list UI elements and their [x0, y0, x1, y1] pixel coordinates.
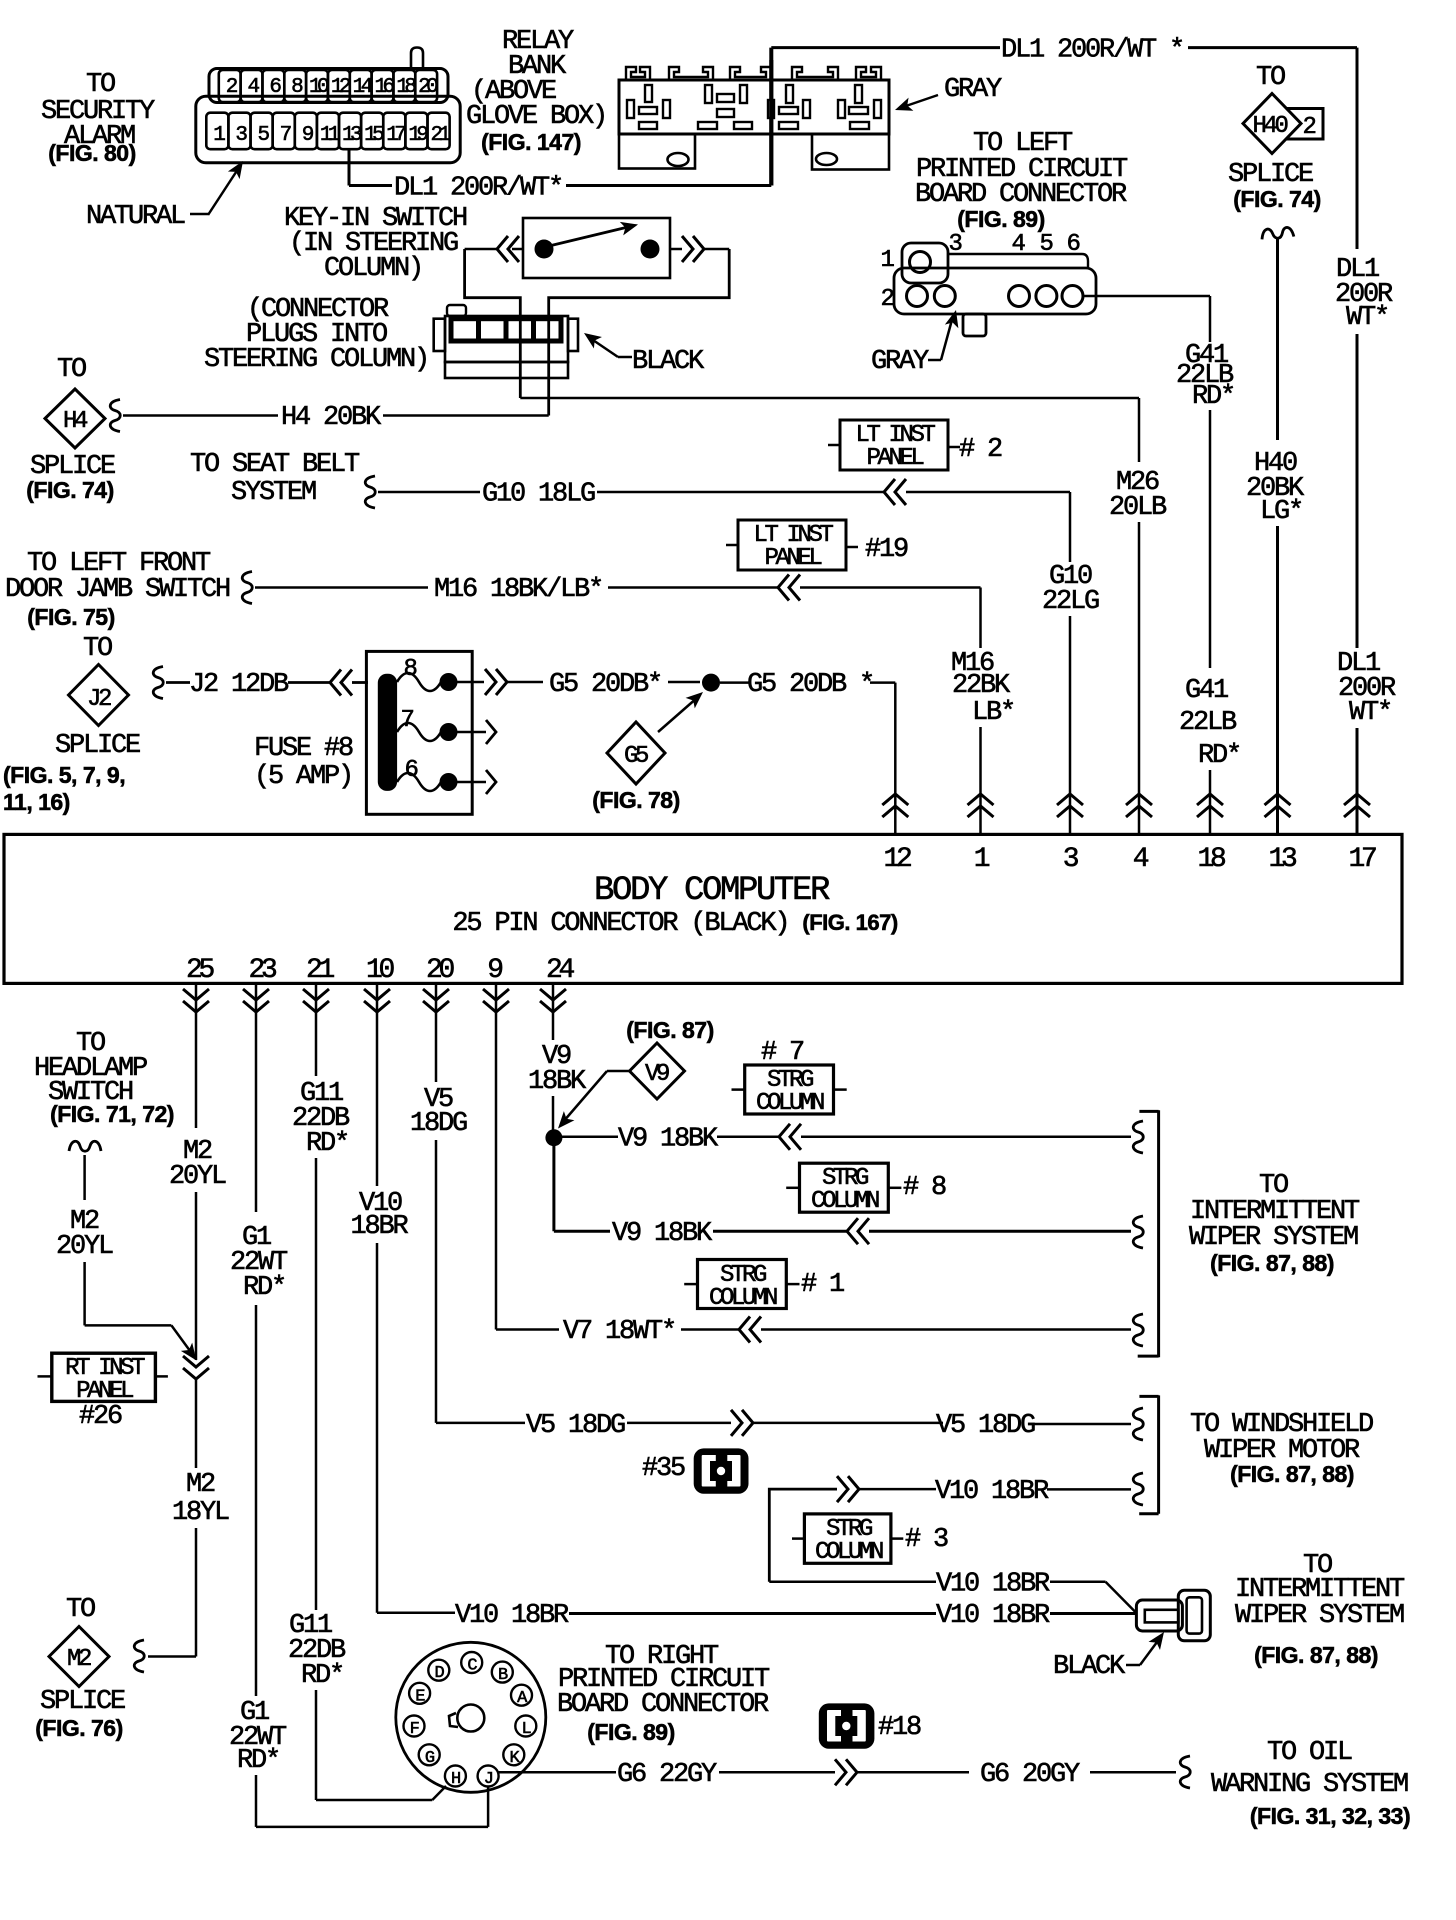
svg-text:25 PIN CONNECTOR (BLACK) (FIG.: 25 PIN CONNECTOR (BLACK) (FIG. 167) [452, 909, 897, 939]
svg-text:V7 18WT*: V7 18WT* [563, 1317, 675, 1347]
connector chevrons below body computer x=377 [364, 989, 390, 1012]
svg-text:BODY COMPUTER: BODY COMPUTER [594, 872, 830, 910]
pin label 3 (top row) [1063, 844, 1079, 875]
svg-text:PANEL: PANEL [76, 1378, 133, 1405]
pin label 21 (bottom row) [306, 955, 335, 986]
label: TO HEADLAMP SWITCH (FIG. 71, 72) [34, 1029, 174, 1127]
svg-text:TO OIL: TO OIL [1267, 1738, 1352, 1768]
svg-text:TO: TO [86, 70, 115, 100]
svg-text:GRAY: GRAY [944, 75, 1002, 105]
svg-text:M2: M2 [186, 1470, 215, 1500]
svg-text:WIPER SYSTEM: WIPER SYSTEM [1189, 1223, 1358, 1253]
svg-text:(FIG. 89): (FIG. 89) [957, 206, 1045, 232]
svg-text:20YL: 20YL [56, 1232, 113, 1262]
svg-text:TO: TO [83, 634, 112, 664]
connector chevrons at body computer top x=980.5 [968, 794, 994, 817]
connector chevrons on M2 wire [183, 1356, 209, 1379]
svg-text:GRAY: GRAY [871, 347, 929, 377]
label: NATURAL with arrow to connector [86, 157, 249, 232]
svg-text:RD*: RD* [1198, 741, 1240, 771]
component: key-in switch [523, 218, 670, 278]
svg-text:(FIG. 87, 88): (FIG. 87, 88) [1254, 1642, 1378, 1668]
wire: pin6 to G41 22LB RD* to pin 18 [1083, 296, 1240, 834]
component: BODY COMPUTER 25 PIN CONNECTOR (BLACK) (FIG. 167) [4, 834, 1402, 983]
bracket: intermittent wiper system group [1138, 1110, 1159, 1357]
wire: G11 22DB RD* from pin 21 to round connector pin H [288, 983, 446, 1800]
label: BLACK (key-in connector) with arrow [580, 327, 705, 377]
svg-text:LG*: LG* [1260, 497, 1302, 527]
splice H40>2 (FIG. 74) [1228, 63, 1323, 212]
svg-text:V10 18BR: V10 18BR [455, 1601, 569, 1631]
splice M2 (FIG. 76) [35, 1595, 144, 1741]
pin label 23 (bottom row) [248, 955, 277, 986]
svg-text:SPLICE: SPLICE [55, 731, 140, 761]
connector chevrons below body computer x=256 [243, 989, 269, 1012]
svg-text:23: 23 [248, 955, 277, 986]
svg-text:D: D [434, 1664, 444, 1683]
svg-text:RD*: RD* [301, 1661, 343, 1691]
svg-text:(FIG. 74): (FIG. 74) [1233, 186, 1321, 212]
splice H4 (FIG. 74) [26, 355, 115, 503]
svg-text:G5: G5 [624, 743, 648, 770]
wire: DL1 200R/WT* from security connector pin 13 [349, 48, 1000, 204]
svg-text:V10 18BR: V10 18BR [936, 1570, 1050, 1600]
svg-text:SYSTEM: SYSTEM [231, 478, 316, 508]
connector chevrons at body computer top x=1357 [1344, 794, 1370, 817]
svg-text:13: 13 [1268, 844, 1297, 875]
svg-text:18BK: 18BK [528, 1067, 587, 1097]
wire: key-in switch right lead to connector [549, 236, 730, 416]
connector: security alarm 21-pin (natural) [196, 48, 460, 163]
wire: V9 18BK lower branch to intermittent wiper [554, 1216, 1143, 1249]
svg-text:COLUMN: COLUMN [815, 1539, 883, 1566]
svg-text:(FIG. 74): (FIG. 74) [26, 477, 114, 503]
svg-text:(FIG. 87): (FIG. 87) [626, 1017, 714, 1043]
svg-text:(FIG. 71, 72): (FIG. 71, 72) [50, 1101, 174, 1127]
svg-text:12: 12 [883, 844, 911, 875]
svg-text:(FIG. 87, 88): (FIG. 87, 88) [1230, 1461, 1354, 1487]
wire: G6 22GY from pin J to oil warning [499, 1756, 1191, 1790]
pin label 10 (bottom row) [366, 955, 395, 986]
svg-text:G41: G41 [1185, 676, 1228, 706]
svg-text:(FIG. 78): (FIG. 78) [592, 787, 680, 813]
wire: J2 12DB to fuse #8 [153, 667, 368, 701]
component: STRG COLUMN # 1 [684, 1260, 844, 1313]
component: fuse #8 (5 AMP) block [366, 651, 472, 814]
wire: H4 20BK [110, 400, 548, 434]
svg-text:G6 20GY: G6 20GY [980, 1760, 1080, 1790]
wire: V7 18WT* from pin 9 to intermittent wiper [496, 983, 1143, 1347]
connector chevrons below body computer x=196 [183, 989, 209, 1012]
svg-text:20: 20 [426, 955, 455, 986]
svg-text:WT*: WT* [1349, 698, 1391, 728]
splice G5 (FIG. 78) with arrow to junction [592, 687, 707, 813]
wire: M2 20YL headlamp branch [56, 1141, 202, 1364]
connector chevrons at body computer top x=1139 [1126, 794, 1152, 817]
svg-text:TO SEAT BELT: TO SEAT BELT [190, 450, 360, 480]
pin label 1 (top row) [974, 844, 990, 875]
svg-text:WARNING SYSTEM: WARNING SYSTEM [1211, 1770, 1408, 1800]
svg-text:BOARD CONNECTOR: BOARD CONNECTOR [557, 1690, 769, 1720]
svg-text:DL1 200R/WT*: DL1 200R/WT* [394, 174, 562, 204]
svg-text:BLACK: BLACK [1053, 1652, 1126, 1682]
pin label 9 (bottom row) [487, 955, 502, 986]
node: G5 junction dot [702, 674, 720, 692]
svg-text:H4: H4 [63, 408, 88, 435]
connector: key-in switch 4-cavity (black) [434, 305, 578, 378]
pin label 20 (bottom row) [426, 955, 455, 986]
svg-text:#18: #18 [878, 1713, 921, 1743]
svg-text:BLACK: BLACK [632, 347, 705, 377]
pin label 17 (top row) [1348, 844, 1376, 875]
svg-text:10: 10 [366, 955, 395, 986]
svg-text:DL1 200R/WT *: DL1 200R/WT * [1001, 36, 1183, 66]
svg-text:COLUMN: COLUMN [811, 1188, 879, 1215]
svg-text:# 8: # 8 [903, 1173, 946, 1203]
label+wire: DL1 200R/WT * (top right run) [1001, 36, 1357, 250]
wire: fuse out 6 [457, 770, 496, 794]
svg-text:RD*: RD* [243, 1273, 285, 1303]
wire: G5 20DB* from fuse to junction [457, 669, 700, 700]
svg-text:WIPER SYSTEM: WIPER SYSTEM [1235, 1601, 1404, 1631]
svg-text:COLUMN: COLUMN [756, 1090, 824, 1117]
svg-text:(5 AMP): (5 AMP) [254, 762, 352, 792]
icon: grounding #18 [819, 1703, 921, 1748]
svg-text:DOOR JAMB SWITCH: DOOR JAMB SWITCH [5, 575, 230, 605]
svg-text:G5 20DB*: G5 20DB* [549, 670, 661, 700]
svg-text:H40: H40 [1252, 113, 1287, 140]
label: GRAY (relay bank) with arrow [893, 75, 1002, 117]
svg-text:M2: M2 [67, 1646, 91, 1673]
svg-text:L: L [521, 1720, 531, 1739]
svg-text:18: 18 [1197, 844, 1225, 875]
component: RT INST PANEL #26 [38, 1353, 168, 1432]
svg-text:STEERING COLUMN): STEERING COLUMN) [204, 345, 428, 375]
svg-text:22LG: 22LG [1042, 587, 1099, 617]
svg-text:(FIG. 31, 32, 33): (FIG. 31, 32, 33) [1250, 1803, 1410, 1829]
wire: V10 18BR upper branch to wiper motor bracket [769, 1473, 1143, 1582]
svg-text:(FIG. 87, 88): (FIG. 87, 88) [1210, 1250, 1334, 1276]
component: STRG COLUMN # 8 [786, 1163, 946, 1215]
svg-text:#35: #35 [642, 1454, 685, 1484]
wire: V5 18DG from pin 20 [410, 983, 1143, 1441]
label: TO LEFT PRINTED CIRCUIT BOARD CONNECTOR (FIG. 89) [915, 129, 1128, 232]
svg-text:17: 17 [1348, 844, 1376, 875]
svg-text:C: C [467, 1657, 477, 1676]
svg-text:22BK: 22BK [952, 671, 1011, 701]
svg-text:RD*: RD* [1192, 382, 1234, 412]
svg-text:# 2: # 2 [959, 435, 1002, 465]
svg-text:V5 18DG: V5 18DG [936, 1411, 1035, 1441]
wire: G5 20DB* junction to pin 12 [720, 670, 895, 834]
connector chevrons at body computer top x=1277.5 [1265, 794, 1291, 817]
svg-text:G5 20DB *: G5 20DB * [747, 670, 873, 700]
wire: G10 18LG to pin 3 [365, 476, 1099, 834]
svg-text:GLOVE BOX): GLOVE BOX) [466, 102, 606, 132]
svg-text:PANEL: PANEL [764, 545, 821, 572]
svg-text:COLUMN: COLUMN [709, 1285, 777, 1312]
label: FUSE #8 (5 AMP) [254, 734, 353, 792]
wire: V10 18BR lower branch to black connector [769, 1570, 1136, 1613]
connector chevrons below body computer x=496 [483, 989, 509, 1012]
svg-text:WT*: WT* [1346, 303, 1388, 333]
component: STRG COLUMN # 7 [732, 1038, 847, 1117]
svg-text:20LB: 20LB [1109, 493, 1167, 523]
connector chevrons below body computer x=553 [540, 989, 566, 1012]
pin label 18 (top row) [1197, 844, 1225, 875]
pin label 4 (top row) [1133, 844, 1149, 875]
pin label 24 (bottom row) [546, 955, 575, 986]
svg-text:V9 18BK: V9 18BK [618, 1125, 719, 1155]
pin label 13 (top row) [1268, 844, 1297, 875]
wire: G1 22WT RD* from pin 23 to round connector pin J [229, 983, 488, 1827]
wire: DL1 vertical through relay bank [769, 60, 773, 186]
svg-text:# 3: # 3 [905, 1525, 948, 1555]
svg-text:18DG: 18DG [410, 1109, 467, 1139]
svg-text:(FIG. 75): (FIG. 75) [27, 604, 115, 630]
label: TO RIGHT PRINTED CIRCUIT BOARD CONNECTOR (FIG. 89) [557, 1642, 770, 1745]
label: TO OIL WARNING SYSTEM (FIG. 31, 32, 33) [1211, 1738, 1410, 1829]
svg-text:F: F [410, 1720, 419, 1739]
label: TO LEFT FRONT DOOR JAMB SWITCH (FIG. 75) [5, 549, 230, 630]
pin label 25 (bottom row) [186, 955, 215, 986]
label: TO WINDSHIELD WIPER MOTOR (FIG. 87, 88) [1190, 1410, 1373, 1487]
connector: left PCB connector (gray, 6 pin) [880, 231, 1096, 336]
label: TO SEAT BELT SYSTEM [190, 450, 360, 508]
svg-text:11, 16): 11, 16) [3, 789, 70, 815]
svg-text:V5 18DG: V5 18DG [526, 1411, 625, 1441]
svg-text:(FIG. 76): (FIG. 76) [35, 1715, 123, 1741]
svg-text:TO: TO [57, 355, 86, 385]
svg-text:20YL: 20YL [169, 1162, 226, 1192]
svg-text:J2 12DB: J2 12DB [189, 670, 289, 700]
label: KEY-IN SWITCH (IN STEERING COLUMN) [284, 204, 467, 284]
svg-text:G6 22GY: G6 22GY [617, 1760, 717, 1790]
svg-text:(FIG. 5, 7, 9,: (FIG. 5, 7, 9, [3, 762, 125, 788]
svg-text:22LB: 22LB [1179, 708, 1237, 738]
component: LT INST PANEL #19 [726, 520, 908, 572]
connector: intermittent wiper (black) [1136, 1590, 1210, 1641]
label: TO SECURITY ALARM (FIG. 80) [41, 70, 155, 166]
label: (CONNECTOR PLUGS INTO STEERING COLUMN) [204, 295, 428, 375]
label: BLACK (wiper connector) with arrow [1053, 1628, 1170, 1682]
svg-text:(FIG. 89): (FIG. 89) [587, 1719, 675, 1745]
connector chevrons below body computer x=316 [303, 989, 329, 1012]
icon: grounding #35 [642, 1448, 749, 1493]
svg-text:RD*: RD* [237, 1746, 279, 1776]
label: TO INTERMITTENT WIPER SYSTEM (FIG. 87, 88) lower [1235, 1551, 1405, 1668]
connector chevrons at body computer top x=1070 [1057, 794, 1083, 817]
bracket: windshield wiper motor group [1139, 1395, 1158, 1513]
svg-text:TO: TO [1256, 63, 1285, 93]
svg-text:RD*: RD* [306, 1129, 348, 1159]
connector chevrons below body computer x=436 [423, 989, 449, 1012]
wire: M2 18YL to splice [148, 1380, 229, 1657]
svg-text:M16 18BK/LB*: M16 18BK/LB* [434, 575, 602, 605]
wire: V9 vertical junction to lower branch [552, 1138, 555, 1232]
svg-text:SPLICE: SPLICE [40, 1687, 125, 1717]
svg-text:(FIG. 147): (FIG. 147) [481, 129, 581, 155]
svg-text:E: E [415, 1687, 425, 1706]
wire: M16 18BK/LB* to pin 1 [242, 572, 1014, 835]
wire: key-in switch left lead to connector [465, 236, 523, 398]
svg-text:21: 21 [306, 955, 335, 986]
wire: V10 18BR long run from pin 10 [350, 983, 1136, 1631]
svg-text:G: G [425, 1749, 435, 1768]
connector chevrons at body computer top x=1210 [1197, 794, 1223, 817]
svg-text:PANEL: PANEL [866, 445, 923, 472]
wire: H40 20BK LG* down to pin 13 [1246, 227, 1305, 834]
connector chevrons at body computer top x=895.3 [882, 794, 908, 817]
wire: M2 20YL from pin 25 [169, 983, 226, 1360]
svg-text:24: 24 [546, 955, 575, 986]
svg-text:FUSE #8: FUSE #8 [254, 734, 353, 764]
svg-text:J: J [484, 1770, 493, 1789]
wire: V9 18BK upper branch to intermittent wiper [562, 1121, 1143, 1155]
svg-text:18BR: 18BR [350, 1212, 408, 1242]
wire: M26 20LB from key-in connector to pin 4 [520, 398, 1167, 834]
component: LT INST PANEL # 2 [828, 420, 1002, 472]
svg-text:H: H [451, 1770, 460, 1789]
svg-text:V10 18BR: V10 18BR [936, 1601, 1050, 1631]
svg-text:H4 20BK: H4 20BK [281, 403, 382, 433]
svg-text:LB*: LB* [972, 698, 1014, 728]
wire: V9 18BK from pin 24 to junction [528, 983, 587, 1130]
splice V9 (FIG. 87) diamond with arrow [553, 1017, 714, 1133]
svg-text:TO: TO [66, 1595, 95, 1625]
label: TO INTERMITTENT WIPER SYSTEM (FIG. 87, 88) [1189, 1171, 1360, 1276]
svg-text:(FIG. 80): (FIG. 80) [48, 140, 136, 166]
svg-text:COLUMN): COLUMN) [324, 254, 422, 284]
svg-text:G10 18LG: G10 18LG [482, 480, 595, 510]
connector: right PCB round connector [396, 1642, 546, 1792]
component: relay bank (above glove box) [619, 67, 889, 170]
svg-text:V9: V9 [645, 1061, 669, 1088]
wire: fuse out 7 [457, 720, 496, 744]
node: V9 junction dot [545, 1129, 562, 1146]
svg-text:18YL: 18YL [172, 1498, 229, 1528]
svg-text:# 1: # 1 [801, 1270, 844, 1300]
svg-text:V10 18BR: V10 18BR [935, 1477, 1049, 1507]
label: RELAY BANK (ABOVE GLOVE BOX) (FIG. 147) [466, 27, 606, 155]
svg-text:#26: #26 [79, 1402, 122, 1432]
svg-text:25: 25 [186, 955, 215, 986]
label: GRAY (6-pin connector) with arrow [871, 308, 963, 377]
pin label 12 (top row) [883, 844, 911, 875]
svg-text:NATURAL: NATURAL [86, 202, 185, 232]
svg-text:V9 18BK: V9 18BK [612, 1219, 713, 1249]
component: STRG COLUMN # 3 [792, 1514, 948, 1566]
svg-text:J2: J2 [87, 686, 111, 713]
splice J2 (FIG. 5,7,9,11,16) [3, 634, 140, 815]
svg-text:B: B [498, 1666, 508, 1685]
wire+label: DL1 200R WT* right vertical to pin 17 [1335, 255, 1396, 834]
svg-text:#19: #19 [865, 535, 908, 565]
